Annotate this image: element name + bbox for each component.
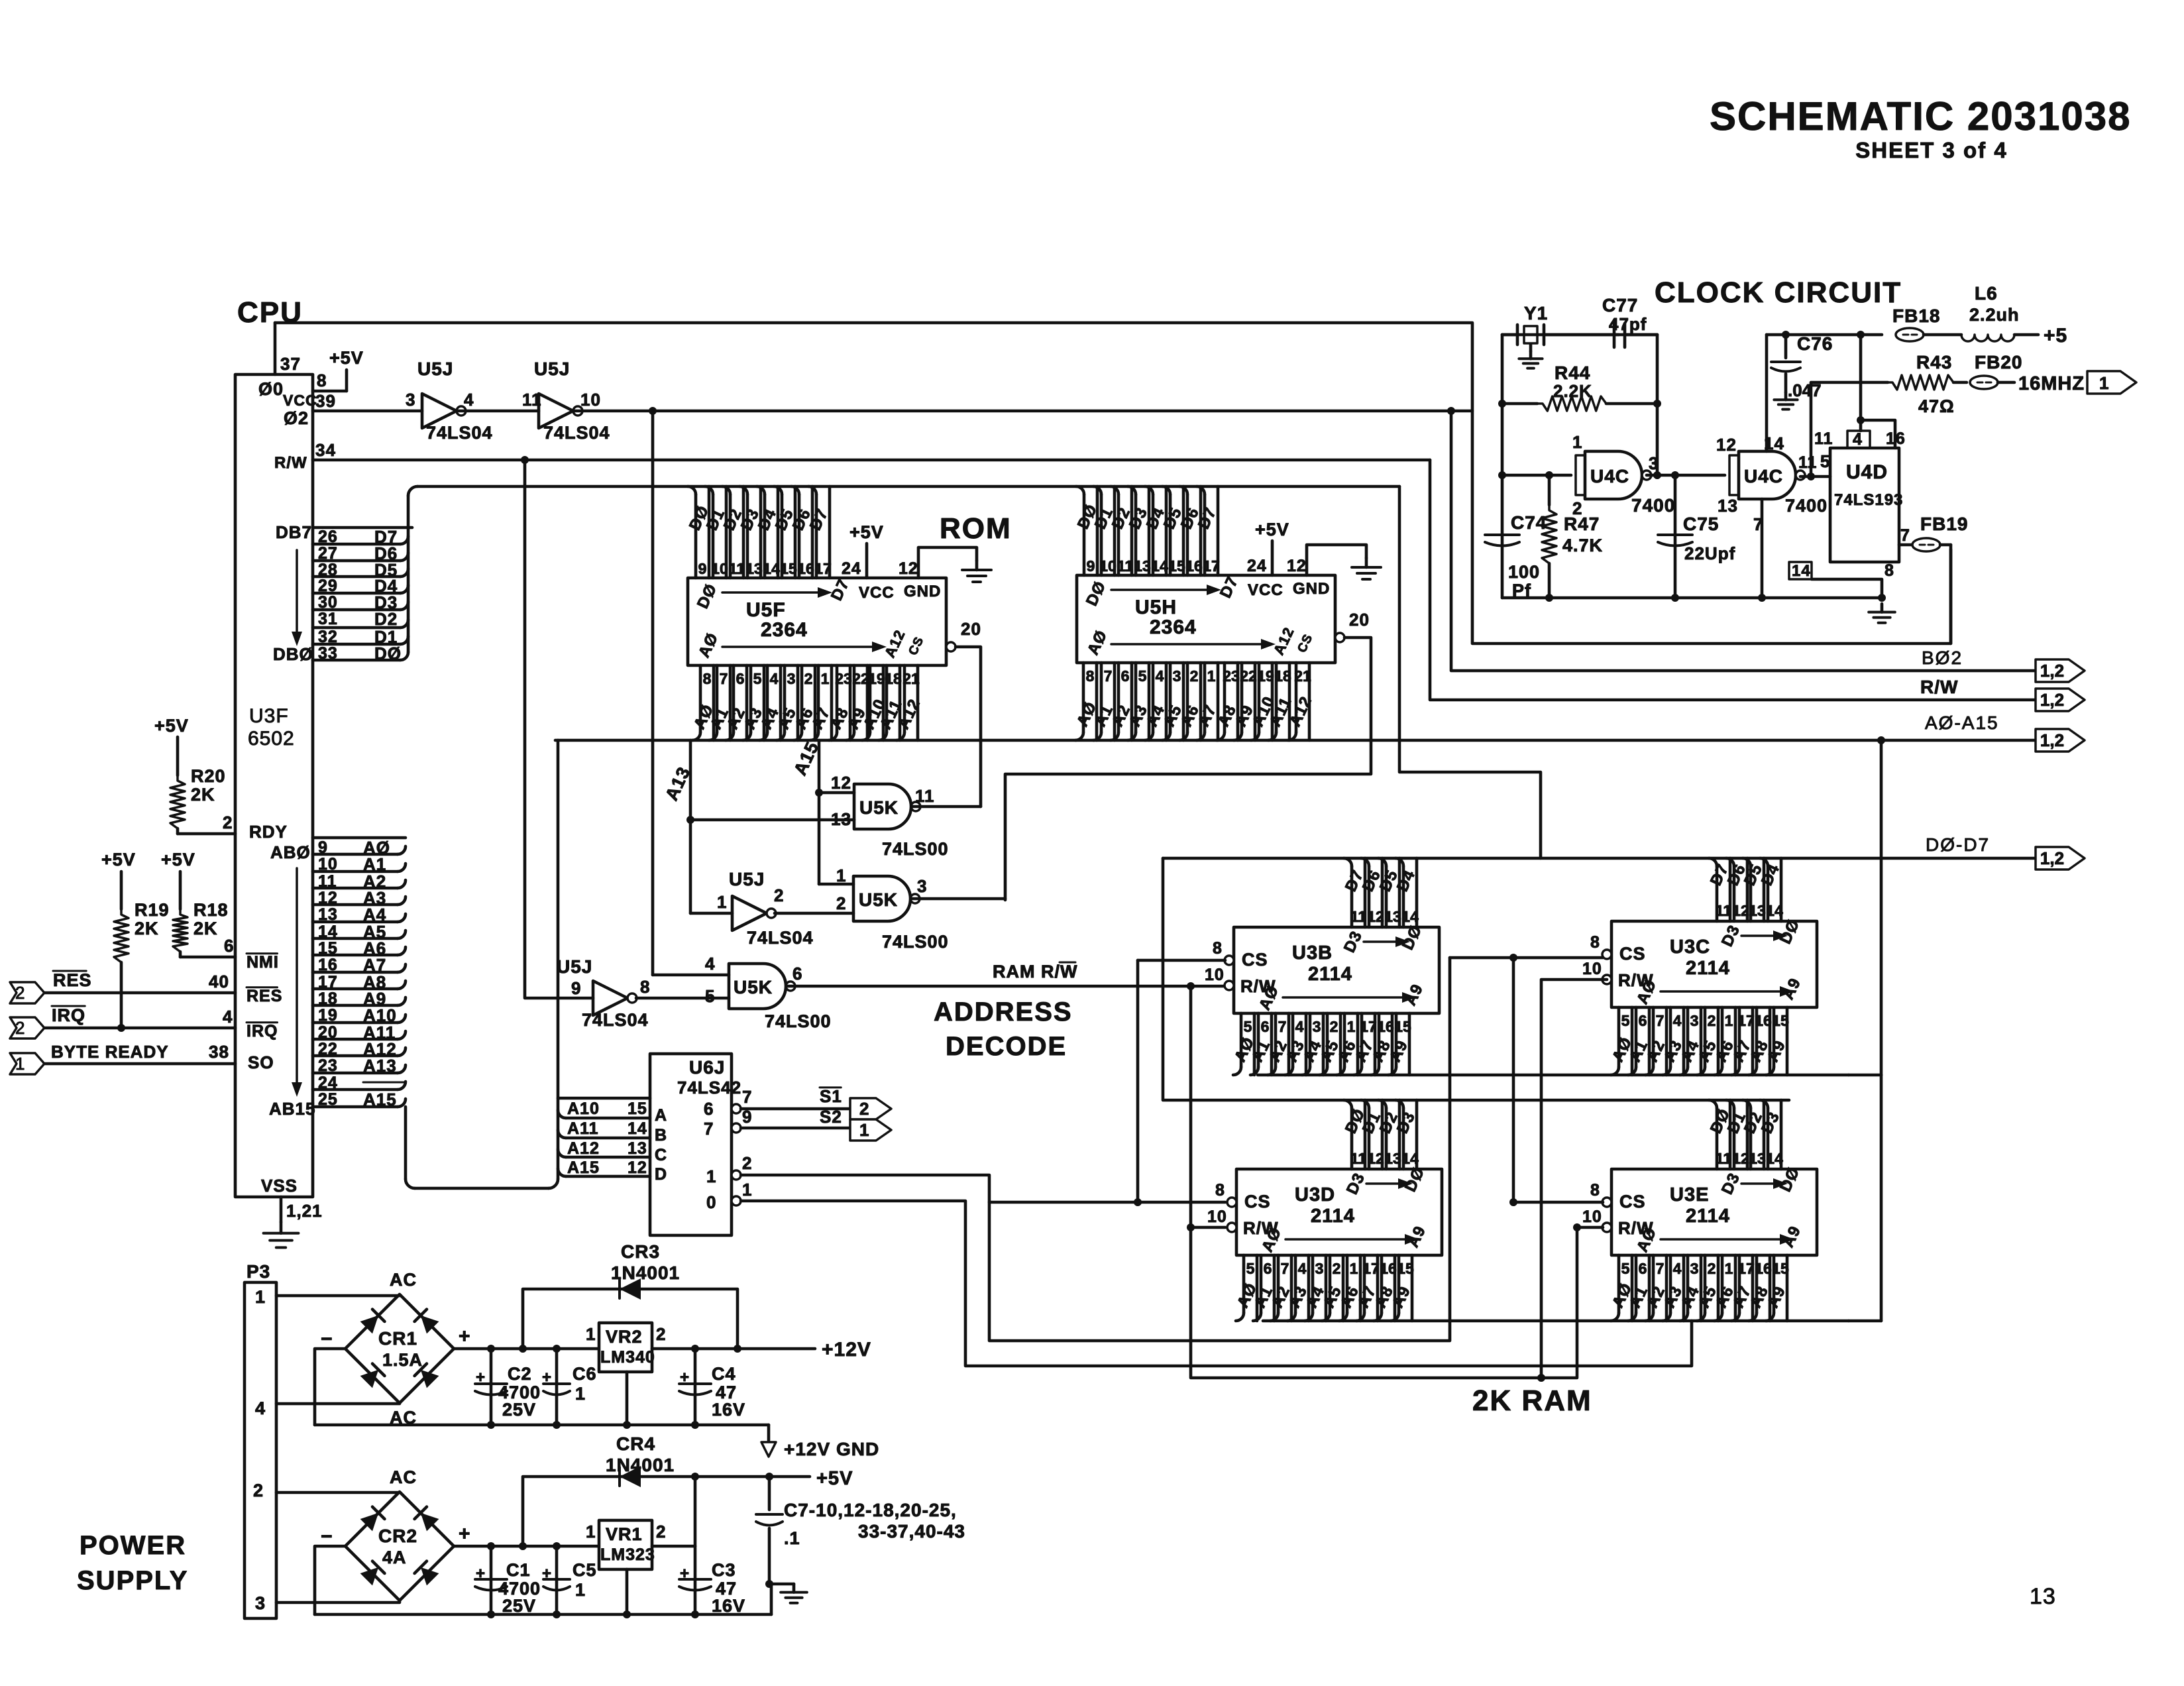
svg-text:2: 2 — [223, 813, 233, 832]
svg-text:1: 1 — [859, 1120, 869, 1140]
svg-text:1,2: 1,2 — [2040, 730, 2064, 750]
svg-text:4: 4 — [1673, 1260, 1682, 1277]
svg-text:8: 8 — [1590, 933, 1600, 952]
svg-text:4A: 4A — [382, 1547, 407, 1567]
svg-text:33: 33 — [318, 644, 338, 663]
svg-text:ABØ: ABØ — [270, 842, 311, 862]
wire ground rail corner up — [770, 1584, 773, 1614]
svg-text:1: 1 — [706, 1166, 716, 1186]
wire U3B R/W drop — [1191, 986, 1577, 1378]
IRQ input flag and wire — [10, 1017, 44, 1039]
wire U4C b out to U4D — [1800, 475, 1830, 478]
ROM U5H data lanes — [1096, 486, 1099, 575]
svg-text:2: 2 — [1333, 1260, 1341, 1277]
wire 16MHZ from divider — [1807, 473, 1815, 480]
svg-text:6: 6 — [1261, 1018, 1270, 1035]
svg-text:AB15: AB15 — [269, 1099, 315, 1119]
svg-text:14: 14 — [1151, 557, 1168, 575]
wire VR1 ground — [626, 1569, 629, 1614]
svg-text:1: 1 — [255, 1287, 266, 1307]
svg-text:13: 13 — [2030, 1584, 2056, 1609]
svg-text:C1: C1 — [506, 1560, 531, 1580]
wire U3B CS to U3D CS — [1138, 959, 1225, 962]
svg-text:3: 3 — [406, 390, 415, 410]
svg-text:21: 21 — [1294, 667, 1311, 685]
svg-text:6502: 6502 — [248, 728, 295, 750]
wire +12V GND stub and symbol — [767, 1425, 771, 1442]
svg-text:16: 16 — [1377, 1018, 1394, 1035]
svg-text:+: + — [476, 1565, 486, 1583]
svg-text:+: + — [680, 1369, 690, 1386]
ROM U5F CS pin 20 wire — [946, 642, 955, 651]
svg-text:12: 12 — [1367, 1150, 1384, 1167]
RAM U3E 2114 body — [1611, 1169, 1817, 1255]
svg-text:5: 5 — [1621, 1260, 1630, 1277]
svg-text:RES: RES — [53, 970, 92, 990]
wire U4C a output — [1647, 474, 1725, 477]
svg-text:15: 15 — [628, 1099, 647, 1118]
svg-text:16: 16 — [797, 560, 814, 577]
svg-text:12: 12 — [1716, 435, 1737, 455]
svg-text:U3B: U3B — [1292, 942, 1333, 964]
svg-text:U5J: U5J — [417, 359, 453, 379]
svg-text:VR1: VR1 — [606, 1524, 643, 1544]
wire oscillator bottom rail — [1502, 596, 1882, 600]
wire D-bus drop to RAM distribution — [1399, 486, 1541, 858]
svg-text:2: 2 — [15, 983, 25, 1003]
svg-text:LM323: LM323 — [600, 1545, 655, 1564]
svg-text:4: 4 — [1156, 667, 1164, 685]
svg-text:2: 2 — [1708, 1012, 1716, 1029]
svg-text:VR2: VR2 — [606, 1327, 643, 1347]
capacitor C2 4700 25V — [490, 1349, 493, 1425]
svg-text:FB19: FB19 — [1920, 514, 1968, 534]
svg-text:100: 100 — [1508, 562, 1540, 582]
wire +5V output line — [695, 1475, 810, 1479]
capacitor C6 1 — [555, 1349, 559, 1425]
svg-text:24: 24 — [318, 1074, 338, 1092]
svg-text:1: 1 — [836, 866, 846, 885]
svg-text:2: 2 — [1708, 1260, 1716, 1277]
wire +5 rail — [1767, 333, 1882, 337]
svg-text:+12V: +12V — [822, 1339, 871, 1361]
svg-text:2: 2 — [742, 1153, 752, 1173]
svg-text:L6: L6 — [1975, 283, 1998, 304]
svg-text:+5V: +5V — [816, 1468, 853, 1489]
svg-text:2: 2 — [1330, 1018, 1338, 1035]
svg-text:13: 13 — [1384, 1150, 1401, 1167]
svg-text:IRQ: IRQ — [52, 1005, 85, 1025]
svg-text:5: 5 — [1138, 667, 1147, 685]
wire nand input line — [1502, 474, 1571, 477]
svg-text:C76: C76 — [1797, 333, 1833, 354]
svg-text:−: − — [321, 1328, 333, 1350]
svg-text:U4D: U4D — [1846, 461, 1888, 483]
ROM U5H VCC pin 24 +5V — [1271, 541, 1274, 575]
svg-text:U3E: U3E — [1670, 1184, 1709, 1206]
svg-text:13: 13 — [831, 809, 851, 829]
svg-text:DBØ: DBØ — [273, 644, 313, 664]
U4D ground — [1881, 604, 1884, 612]
svg-text:GND: GND — [904, 583, 941, 600]
svg-text:20: 20 — [1349, 610, 1370, 630]
svg-text:4: 4 — [1298, 1260, 1307, 1277]
svg-text:+5V: +5V — [849, 522, 884, 542]
svg-text:3: 3 — [1690, 1012, 1699, 1029]
svg-text:11: 11 — [1350, 908, 1367, 925]
svg-text:16MHZ: 16MHZ — [2018, 373, 2085, 394]
svg-text:8: 8 — [1215, 1181, 1225, 1200]
ROM U5H address lanes — [1095, 663, 1099, 740]
svg-text:6: 6 — [1121, 667, 1130, 685]
svg-text:18: 18 — [1274, 667, 1291, 685]
ROM U5F GND pin 12 — [918, 547, 977, 578]
svg-text:20: 20 — [961, 619, 981, 639]
svg-text:5: 5 — [705, 986, 715, 1006]
svg-text:1: 1 — [586, 1522, 596, 1542]
ROM U5H 2364 body — [1077, 575, 1335, 663]
flag S1 to sheet 2 — [850, 1098, 891, 1119]
svg-text:6: 6 — [792, 964, 802, 983]
svg-text:DØ-D7: DØ-D7 — [1926, 834, 1990, 855]
svg-text:19: 19 — [318, 1006, 338, 1025]
svg-text:12: 12 — [1287, 557, 1307, 575]
wire U3D CS — [989, 1201, 1225, 1204]
svg-text:A15: A15 — [567, 1158, 600, 1177]
svg-text:3: 3 — [1690, 1260, 1699, 1277]
svg-text:13: 13 — [1749, 1150, 1766, 1167]
svg-text:CS: CS — [1242, 950, 1268, 970]
svg-text:8: 8 — [640, 977, 650, 997]
svg-text:+5V: +5V — [101, 850, 136, 870]
svg-text:1,2: 1,2 — [2040, 848, 2064, 868]
svg-text:+5: +5 — [2044, 325, 2067, 347]
svg-text:9: 9 — [571, 978, 581, 998]
svg-text:13: 13 — [745, 560, 763, 577]
svg-text:+5V: +5V — [154, 716, 189, 736]
svg-text:11: 11 — [1716, 1150, 1732, 1167]
svg-text:IRQ: IRQ — [246, 1022, 278, 1040]
svg-text:16: 16 — [1380, 1260, 1397, 1277]
svg-text:7: 7 — [1104, 667, 1113, 685]
svg-text:SHEET 3 of 4: SHEET 3 of 4 — [1855, 138, 2007, 162]
svg-text:14: 14 — [1401, 1150, 1419, 1167]
ROM U5F 2364 body — [688, 578, 946, 665]
svg-text:U5F: U5F — [746, 599, 786, 621]
svg-text:1: 1 — [821, 670, 830, 687]
svg-text:AC: AC — [390, 1467, 417, 1487]
svg-text:13: 13 — [1134, 557, 1151, 575]
wire A-bus feed down right side — [1880, 740, 1883, 1075]
svg-text:74LS04: 74LS04 — [543, 423, 610, 443]
svg-text:38: 38 — [209, 1042, 229, 1062]
svg-text:1: 1 — [742, 1180, 752, 1200]
bridge rectifier CR2 4A — [345, 1492, 454, 1601]
svg-text:7400: 7400 — [1785, 496, 1828, 516]
svg-text:1N4001: 1N4001 — [611, 1263, 680, 1283]
svg-text:2K: 2K — [135, 919, 159, 938]
svg-text:AC: AC — [390, 1270, 417, 1290]
svg-text:32: 32 — [318, 628, 338, 646]
svg-text:27: 27 — [318, 544, 338, 563]
svg-text:U6J: U6J — [689, 1057, 725, 1078]
svg-text:1: 1 — [575, 1384, 586, 1404]
svg-text:22: 22 — [852, 670, 869, 687]
svg-text:U5K: U5K — [859, 889, 898, 910]
nand U5K b (ROM select U5H) — [775, 912, 853, 915]
wire D0-D3 lower distribution line — [1163, 858, 1789, 1100]
svg-text:11: 11 — [1350, 1150, 1367, 1167]
svg-text:+5V: +5V — [329, 348, 364, 368]
svg-text:10: 10 — [1582, 960, 1602, 978]
svg-text:1: 1 — [1572, 432, 1582, 452]
ROM U5F VCC pin 24 +5V — [865, 543, 869, 578]
wire FB19 to B02 return — [1949, 545, 1953, 644]
svg-text:A15: A15 — [363, 1090, 397, 1109]
svg-text:2364: 2364 — [1150, 616, 1197, 638]
wire between inverters — [458, 410, 539, 413]
svg-text:1: 1 — [717, 892, 727, 912]
svg-text:U5K: U5K — [859, 797, 899, 818]
svg-text:U5J: U5J — [534, 359, 570, 379]
svg-text:4: 4 — [770, 670, 779, 687]
wire CR1 plus to VR2 +12V line — [454, 1347, 599, 1351]
svg-text:74LS04: 74LS04 — [747, 928, 814, 948]
svg-text:11: 11 — [729, 560, 745, 577]
svg-text:1: 1 — [15, 1054, 25, 1074]
svg-text:3: 3 — [1173, 667, 1181, 685]
svg-text:R43: R43 — [1916, 352, 1952, 372]
svg-text:B: B — [655, 1126, 667, 1145]
svg-text:2: 2 — [656, 1324, 666, 1344]
svg-text:14: 14 — [318, 923, 338, 941]
svg-text:13: 13 — [1718, 496, 1738, 516]
svg-text:5: 5 — [1244, 1018, 1252, 1035]
wire RAM A-bus upper — [1258, 1074, 1849, 1077]
svg-text:2K RAM: 2K RAM — [1472, 1384, 1592, 1417]
svg-text:10: 10 — [1582, 1208, 1602, 1226]
svg-text:CR4: CR4 — [616, 1433, 655, 1454]
svg-text:22: 22 — [1240, 667, 1257, 685]
svg-text:4: 4 — [223, 1007, 233, 1027]
svg-text:4: 4 — [705, 954, 715, 974]
wire oscillator right vertical — [1656, 335, 1659, 475]
svg-text:15: 15 — [1772, 1260, 1789, 1277]
svg-text:LM340: LM340 — [600, 1348, 655, 1367]
svg-text:6: 6 — [1639, 1012, 1647, 1029]
wire CR2 plus to VR1 line — [454, 1545, 599, 1548]
svg-text:A10: A10 — [567, 1099, 600, 1118]
BYTE READY input flag and wire — [10, 1053, 44, 1074]
wire U3C R/W tap — [1541, 980, 1607, 1378]
svg-text:12: 12 — [1367, 908, 1384, 925]
wire D-bus horizontal — [417, 485, 1399, 488]
svg-text:.1: .1 — [784, 1528, 800, 1548]
capacitor C1 4700 25V — [490, 1546, 493, 1614]
svg-text:2: 2 — [15, 1018, 25, 1038]
svg-text:6: 6 — [704, 1099, 714, 1119]
svg-text:C2: C2 — [508, 1364, 532, 1384]
svg-text:9: 9 — [1087, 557, 1095, 575]
svg-text:8: 8 — [1086, 667, 1095, 685]
wire P3-3 to CR2 — [276, 1601, 400, 1602]
svg-text:D2: D2 — [374, 609, 398, 629]
wire R/W down to address decode inverter — [525, 460, 593, 998]
svg-text:6: 6 — [1264, 1260, 1272, 1277]
svg-text:RAM R/: RAM R/ — [993, 962, 1060, 982]
svg-text:R20: R20 — [191, 766, 226, 786]
svg-text:U3F: U3F — [249, 705, 289, 727]
svg-text:5: 5 — [1621, 1012, 1630, 1029]
ROM U5F data lanes — [708, 486, 711, 578]
svg-text:+: + — [680, 1565, 690, 1583]
svg-text:AØ-A15: AØ-A15 — [1925, 712, 1999, 733]
svg-text:C7-10,12-18,20-25,: C7-10,12-18,20-25, — [784, 1500, 957, 1520]
svg-text:U3C: U3C — [1670, 936, 1710, 958]
svg-text:7: 7 — [1281, 1260, 1289, 1277]
CPU U3F 6502 body — [235, 374, 313, 1197]
svg-text:6: 6 — [1639, 1260, 1647, 1277]
svg-text:16V: 16V — [712, 1400, 745, 1420]
svg-text:11: 11 — [1814, 429, 1833, 448]
svg-text:CS: CS — [1619, 1192, 1646, 1211]
svg-text:+5V: +5V — [1255, 520, 1289, 539]
svg-text:7: 7 — [1656, 1260, 1665, 1277]
svg-text:1,21: 1,21 — [286, 1201, 323, 1221]
svg-text:17: 17 — [1737, 1012, 1755, 1029]
svg-text:Ø2: Ø2 — [284, 408, 309, 428]
svg-text:7: 7 — [1900, 526, 1910, 545]
svg-text:20: 20 — [318, 1023, 338, 1042]
RAM U3B 2114 body — [1234, 927, 1439, 1013]
svg-text:CR3: CR3 — [621, 1241, 660, 1262]
svg-text:22Upf: 22Upf — [1684, 543, 1735, 563]
wire VR1 out riser — [694, 1477, 697, 1546]
svg-text:14: 14 — [628, 1119, 647, 1138]
wire +5V ground rail — [315, 1613, 771, 1616]
svg-text:R/W: R/W — [274, 454, 307, 472]
svg-text:31: 31 — [318, 610, 338, 628]
svg-text:1: 1 — [1350, 1260, 1358, 1277]
svg-text:74LS00: 74LS00 — [882, 932, 949, 952]
svg-text:6: 6 — [736, 670, 745, 687]
svg-text:P3: P3 — [246, 1261, 270, 1282]
svg-text:10: 10 — [1207, 1208, 1227, 1226]
svg-text:2K: 2K — [191, 785, 215, 805]
svg-text:NMI: NMI — [246, 953, 279, 972]
wire CR2 minus to ground rail — [315, 1546, 345, 1614]
svg-text:3: 3 — [1313, 1018, 1321, 1035]
svg-text:POWER: POWER — [80, 1531, 186, 1560]
svg-text:14: 14 — [763, 560, 780, 577]
svg-text:8: 8 — [1590, 1181, 1600, 1200]
svg-text:4: 4 — [464, 390, 474, 410]
svg-text:4: 4 — [1673, 1012, 1682, 1029]
crystal ground — [1529, 345, 1533, 351]
decoder U6J 74LS42 body — [650, 1054, 732, 1235]
svg-text:+5V: +5V — [161, 850, 195, 870]
svg-text:VSS: VSS — [261, 1176, 298, 1196]
svg-text:30: 30 — [318, 593, 338, 612]
U4D bottom pins 14 8 — [1789, 562, 1812, 579]
capacitor C4 47 16V — [694, 1349, 697, 1425]
wire oscillator left rail — [1501, 335, 1504, 598]
svg-text:BYTE READY: BYTE READY — [51, 1042, 169, 1062]
svg-text:CLOCK CIRCUIT: CLOCK CIRCUIT — [1655, 276, 1902, 309]
svg-text:8: 8 — [703, 670, 712, 687]
wire +12V ground rail — [315, 1424, 769, 1427]
svg-text:2114: 2114 — [1311, 1206, 1355, 1227]
svg-text:4.7K: 4.7K — [1562, 535, 1603, 555]
svg-text:DØ: DØ — [374, 644, 402, 663]
svg-text:C75: C75 — [1683, 514, 1719, 534]
nand U4C b 7400 — [1729, 455, 1739, 495]
svg-text:C6: C6 — [573, 1364, 597, 1384]
svg-text:9: 9 — [698, 560, 707, 577]
svg-text:16V: 16V — [712, 1596, 745, 1616]
svg-text:1: 1 — [1347, 1018, 1356, 1035]
svg-text:3: 3 — [917, 876, 927, 896]
svg-text:18: 18 — [318, 989, 338, 1008]
svg-text:R18: R18 — [193, 900, 229, 920]
svg-text:16: 16 — [1755, 1012, 1772, 1029]
svg-text:25V: 25V — [502, 1400, 536, 1420]
svg-text:37: 37 — [280, 354, 301, 374]
CPU pin 37 wire to clock (Ø0) — [274, 323, 277, 374]
svg-text:U3D: U3D — [1295, 1184, 1335, 1206]
bridge rectifier CR1 1.5A — [345, 1294, 454, 1403]
svg-text:22: 22 — [318, 1040, 338, 1058]
svg-text:VCC: VCC — [859, 584, 895, 602]
svg-text:12: 12 — [1732, 902, 1749, 919]
svg-text:+: + — [476, 1369, 486, 1386]
svg-text:CR1: CR1 — [378, 1328, 417, 1349]
svg-text:14: 14 — [1792, 562, 1811, 580]
svg-text:2: 2 — [1572, 498, 1582, 518]
svg-text:12: 12 — [1732, 1150, 1749, 1167]
svg-text:U4C: U4C — [1744, 466, 1783, 486]
svg-text:2: 2 — [1190, 667, 1199, 685]
svg-text:S1: S1 — [820, 1086, 842, 1106]
svg-text:R44: R44 — [1555, 363, 1590, 383]
svg-text:4: 4 — [1295, 1018, 1304, 1035]
wire RAM R/W line — [787, 985, 1225, 988]
svg-text:A: A — [655, 1106, 667, 1125]
svg-text:2: 2 — [774, 885, 784, 905]
svg-text:17: 17 — [1360, 1018, 1377, 1035]
svg-text:U5J: U5J — [729, 869, 765, 889]
capacitor C75 22Upf — [1674, 475, 1677, 598]
svg-text:8: 8 — [1213, 939, 1223, 958]
svg-text:23: 23 — [835, 670, 852, 687]
svg-text:13: 13 — [1749, 902, 1766, 919]
svg-text:+: + — [459, 1523, 471, 1545]
svg-text:2: 2 — [253, 1481, 264, 1500]
svg-text:2: 2 — [859, 1099, 869, 1119]
svg-text:29: 29 — [318, 577, 338, 595]
svg-text:16: 16 — [1185, 557, 1203, 575]
svg-text:U4C: U4C — [1590, 466, 1629, 486]
wire P3-4 to CR1 AC — [276, 1402, 400, 1406]
svg-text:14: 14 — [1766, 902, 1783, 919]
svg-text:DECODE: DECODE — [946, 1032, 1067, 1061]
wire RAM A-bus lower — [1263, 1320, 1849, 1323]
svg-text:VCC: VCC — [1248, 581, 1283, 599]
svg-text:15: 15 — [1168, 557, 1185, 575]
svg-text:2114: 2114 — [1686, 958, 1730, 979]
svg-text:74LS00: 74LS00 — [765, 1011, 832, 1031]
svg-text:GND: GND — [1293, 580, 1330, 598]
